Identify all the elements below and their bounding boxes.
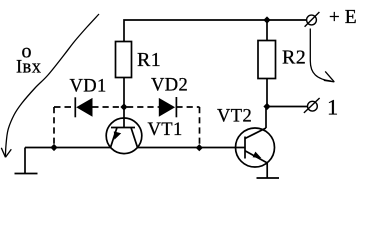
node top junction (263, 16, 270, 23)
ground left (15, 173, 38, 175)
svg-text:VD1: VD1 (70, 77, 107, 97)
wire R1 bottom to node (123, 78, 125, 108)
svg-text:+: + (329, 7, 340, 28)
wire VT2 emitter down (266, 163, 268, 178)
node dashed left (50, 144, 57, 151)
wire dashed left vertical (53, 107, 55, 148)
svg-text:Iвх: Iвх (16, 58, 42, 78)
svg-text:1: 1 (327, 94, 339, 119)
wire bottom rail (25, 147, 111, 149)
svg-text:VD2: VD2 (151, 76, 188, 96)
wire dashed right vertical (199, 107, 201, 147)
wire bottom rail right of VT1 (137, 147, 245, 149)
svg-text:VT2: VT2 (217, 107, 252, 127)
resistor R2 (258, 41, 276, 79)
wire dashed VD2 right (176, 106, 199, 108)
wire top rail (124, 20, 306, 42)
svg-text:R1: R1 (137, 49, 161, 71)
wire VT2 collector up (265, 107, 267, 129)
svg-text:E: E (345, 7, 357, 28)
diode VD2 (159, 97, 177, 117)
wire ground drop left (24, 148, 26, 174)
arrow output current curved (310, 29, 334, 82)
node output junction (263, 103, 270, 110)
wire dashed VD1 to node (92, 106, 121, 108)
arrow input current Ivx (1, 14, 99, 157)
terminal +E (305, 12, 320, 27)
diode VD1 (75, 97, 92, 117)
node dashed right (196, 144, 203, 151)
wire node to VT1 base (123, 107, 125, 128)
wire R2 bottom (266, 79, 268, 107)
wire dashed VD1 left (54, 106, 75, 108)
resistor R1 (116, 42, 132, 78)
wire output to terminal (267, 106, 308, 108)
node base VT1 (120, 103, 127, 110)
transistor VT1 (106, 118, 142, 154)
svg-text:R2: R2 (282, 47, 306, 69)
wire dashed node to VD2 (127, 106, 159, 108)
wire R2 top (266, 20, 268, 41)
ground VT2 emitter (257, 177, 280, 179)
svg-text:VT1: VT1 (148, 120, 183, 140)
transistor VT2 (236, 128, 275, 167)
terminal 1 (304, 98, 320, 113)
